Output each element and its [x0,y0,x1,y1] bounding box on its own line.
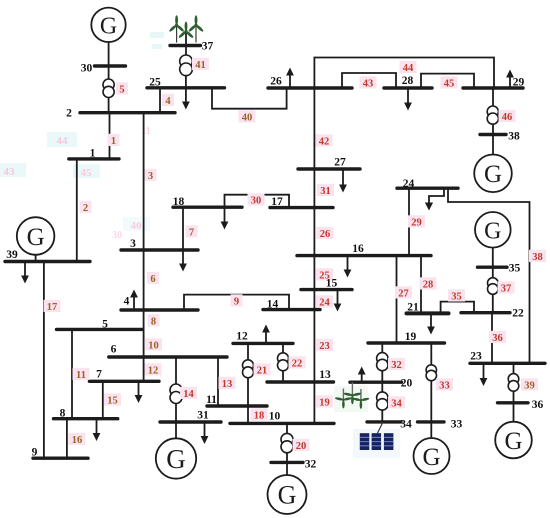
svg-text:37: 37 [202,40,214,52]
wire line 15 (bus7-bus8) [102,381,104,418]
wire transformer46 feeder (bus29-bus38) and generator38 lead [492,88,494,155]
wire generator30 lead [108,42,110,66]
svg-text:14: 14 [267,298,279,310]
wire transformer14 feeder (bus6-bus31) and generator31 lead [175,357,177,438]
svg-text:3: 3 [130,238,136,250]
label line 30 [248,193,265,206]
label line 6 [147,272,159,285]
svg-text:38: 38 [532,252,543,263]
label line 15 [104,393,121,406]
svg-text:16: 16 [72,435,83,446]
label line 35 [448,289,465,302]
label line 40 [239,110,256,123]
svg-text:36: 36 [532,399,544,411]
svg-text:G: G [504,428,522,455]
label line 8 [148,314,160,327]
svg-text:37: 37 [501,283,512,294]
wire line 7 (bus18-bus3) [182,207,184,250]
svg-text:30: 30 [251,195,262,206]
svg-text:23: 23 [319,341,330,352]
svg-text:7: 7 [189,227,194,238]
svg-text:11: 11 [141,126,150,137]
bus 19 [368,341,445,344]
generator at bus 33 [414,438,450,474]
svg-text:44: 44 [403,63,414,74]
bus 6 [109,355,227,358]
bus 33 [418,420,445,423]
label line 42 [316,134,333,147]
svg-text:17: 17 [271,196,283,208]
label line 44 [400,61,417,74]
transformer 32 [377,353,388,371]
svg-text:15: 15 [107,395,118,406]
svg-text:23: 23 [470,350,482,362]
label line 18 [251,408,268,421]
label line 33 [436,378,453,391]
label line 13 [219,377,236,390]
svg-text:46: 46 [502,112,513,123]
svg-text:13: 13 [222,379,233,390]
label line 7 [186,225,198,238]
svg-text:1: 1 [90,147,96,159]
label line 32 [388,358,405,371]
bus 26 [268,86,352,89]
wire generator39 lead [35,255,37,262]
label line 10 [145,338,162,351]
bus 29 [463,86,523,89]
wire transformer22 feeder (bus12-bus13) [282,343,284,382]
wire lines 3/6/8/10/12 (bus2-bus3-bus4-bus5-bus6-bus7) [143,113,145,382]
wire line 40 (bus25-bus26) [212,88,287,109]
bus 37 [170,44,201,47]
label line 39 [521,378,538,391]
svg-text:31: 31 [320,186,331,197]
svg-text:44: 44 [57,135,69,147]
svg-text:33: 33 [439,380,450,391]
svg-text:8: 8 [60,407,66,419]
svg-text:20: 20 [401,377,413,389]
svg-text:28: 28 [423,279,434,290]
injection arrow at bus 4 [130,290,138,311]
wire line 44 (bus26-bus29 over top) [314,58,494,89]
svg-text:2: 2 [83,203,88,214]
svg-text:17: 17 [47,302,58,313]
svg-text:43: 43 [363,78,374,89]
wire line 43 (bus26-bus28) [342,73,396,88]
generator at bus 39 [17,217,55,255]
svg-text:40: 40 [242,112,253,123]
bus 9 [33,457,88,460]
label line 9 [231,294,243,307]
svg-text:1: 1 [111,136,116,147]
load arrow at bus 23 [480,363,488,386]
svg-text:11: 11 [76,370,86,381]
injection arrow at bus 12 [262,325,270,344]
svg-text:39: 39 [6,249,18,261]
bus 35 [478,266,508,269]
solar plant at bus 34 [360,422,394,450]
transformer 5 [103,79,114,98]
svg-text:22: 22 [292,358,303,369]
wire line 36 (bus22-bus23) [491,313,493,364]
generator at bus 38 [474,155,512,193]
wind farm background tint [334,386,368,412]
wire line 13 (bus6-bus11) [217,357,219,406]
wire wind feeder (bus37-transformer41) [185,31,187,56]
bus 28 [384,86,432,89]
label line 29 [408,215,425,228]
label line 25 [316,268,333,281]
svg-text:4: 4 [165,96,171,107]
wire transformer32/34 feeder (bus19-bus20-bus34) [381,343,383,422]
wire line 45 (bus28-bus29) [421,74,474,88]
svg-text:30: 30 [81,62,93,74]
load arrow at bus 27 [339,169,347,193]
wire line 28 (bus16-bus21) [420,256,422,314]
svg-text:39: 39 [524,380,535,391]
svg-text:G: G [278,481,297,510]
wind injection arrow at bus 25 [182,76,190,110]
svg-text:4: 4 [124,295,130,307]
svg-text:32: 32 [305,458,317,470]
svg-text:29: 29 [411,217,422,228]
load arrow at bus 7 [135,381,143,403]
svg-text:G: G [27,224,45,251]
wire line 29 (bus24-bus16) [408,188,410,255]
svg-text:35: 35 [451,291,462,302]
svg-text:10: 10 [269,410,281,422]
wire line 16 (bus8-bus9) [66,419,68,459]
label line 17 [44,300,61,313]
label line 36 [489,331,506,344]
injection arrow at bus 26 [286,68,294,89]
wire line 11 (bus5-bus8) [71,329,73,418]
label line 22 [289,356,306,369]
transformer 34 [377,392,388,410]
solar plant background tint [353,429,400,458]
transformer 21 [243,360,254,378]
svg-text:24: 24 [403,178,415,190]
bus 17 [270,206,333,209]
svg-text:34: 34 [400,418,412,430]
svg-text:10: 10 [148,340,159,351]
wind farm at bus 37 (3 turbines) [168,15,204,42]
label line 38 [529,250,546,263]
svg-text:18: 18 [254,410,265,421]
wire transformer5 feeder (bus30-bus2) [108,66,110,113]
bus 38 [480,133,506,136]
generator at bus 36 [495,422,532,459]
svg-text:15: 15 [326,277,338,289]
bus 16 [297,254,431,257]
load arrow at bus 3 [179,250,187,272]
svg-text:9: 9 [32,446,38,458]
wire generator35 lead / transformer37 feeder (bus35-bus22) [492,247,494,312]
wire line 1 (bus2-bus1) [109,113,111,159]
svg-text:G: G [100,13,117,39]
bus 12 [233,342,293,345]
svg-text:12: 12 [236,330,248,342]
ghost artifact labels [0,32,164,241]
svg-text:41: 41 [195,60,206,71]
bus 31 [160,420,221,423]
wire lines 42/31/26/25/24/23/19 (bus26..bus10 vertical) [313,88,315,423]
bus 10 [230,422,334,425]
svg-text:G: G [422,444,440,471]
svg-text:24: 24 [319,297,330,308]
label line 14 [180,387,197,400]
svg-text:5: 5 [102,318,108,330]
bus 24 [397,186,458,189]
wire transformer33 feeder (bus19-bus33) and generator33 lead [430,343,432,438]
svg-text:19: 19 [319,397,330,408]
bus 30 [95,64,126,67]
bus 32 [271,461,303,464]
label line 11 [73,368,90,381]
wire transformer20 feeder (bus10-bus32) and generator32 lead [286,423,288,475]
svg-text:45: 45 [81,167,93,179]
wind farm at bus 20 (3 turbines) [335,382,370,409]
label line 2 [80,201,92,214]
label line 4 [162,94,174,107]
svg-text:G: G [166,444,186,474]
svg-text:16: 16 [352,243,364,255]
transformer 41 [180,55,193,76]
bus 25 [147,86,225,89]
svg-text:42: 42 [319,136,330,147]
transformer 22 [278,353,289,371]
svg-text:18: 18 [173,196,185,208]
svg-text:21: 21 [407,301,419,313]
load arrow at bus 18 [221,207,229,229]
transformer 46 [487,106,498,124]
label line 24 [316,295,333,308]
svg-text:31: 31 [197,409,209,421]
bus 39 [5,260,90,263]
load arrow at bus 21 [427,313,435,334]
bus 20 [350,381,402,384]
svg-text:13: 13 [319,369,331,381]
wire line 35 (bus21-bus22) [441,302,474,314]
svg-text:28: 28 [402,75,414,87]
load arrow at bus 31 [201,422,209,444]
bus 18 [173,205,242,208]
load arrow at bus 28 [404,88,412,111]
svg-text:7: 7 [96,368,102,380]
wire line 38 (bus24-bus23 right side) [448,188,530,363]
bus 36 [498,401,529,404]
bus 13 [267,380,334,383]
load arrow at bus 16 [344,256,352,278]
label line 23 [316,339,333,352]
svg-text:38: 38 [508,130,520,142]
label line 37 [498,281,515,294]
bus 5 [57,328,143,331]
bus 21 [407,311,449,315]
generator at bus 32 [268,475,307,514]
svg-text:11: 11 [206,394,217,406]
load arrow at bus 8 [93,419,101,441]
bus 27 [298,167,360,170]
svg-text:25: 25 [149,76,161,88]
load arrow at bus 24 (stepped) [425,188,444,210]
label line 12 [145,363,162,376]
label line 20 [293,439,310,452]
label line 3 [145,169,157,182]
svg-text:34: 34 [391,398,402,409]
injection arrow at bus 29 [506,70,514,89]
wire line 18 + transformer21 feeder (bus12-bus11-bus10) [247,343,249,423]
svg-text:21: 21 [257,365,268,376]
transformer 33 [426,365,436,381]
label line 19 [316,395,333,408]
svg-text:20: 20 [296,441,307,452]
label line 41 [192,58,209,71]
wire line 27 (bus16-bus19) [396,256,398,343]
bus 1 [69,157,119,160]
bus 8 [54,417,118,420]
transformer 39 [508,374,519,392]
generator at bus 31 [156,438,196,478]
svg-text:9: 9 [234,296,239,307]
svg-text:27: 27 [398,288,409,299]
label line 34 [388,396,405,409]
svg-text:26: 26 [320,229,331,240]
load arrow at bus 15 [334,290,342,312]
svg-text:G: G [484,161,502,188]
svg-text:8: 8 [151,316,156,327]
label line 28 [420,277,437,290]
wire line 9 (bus4-bus14) [184,295,289,310]
label line 46 [499,110,516,123]
label line 45 [441,76,458,89]
svg-text:G: G [484,218,501,244]
label line 31 [317,184,334,197]
svg-text:6: 6 [150,274,155,285]
generator at bus 30 [91,8,125,42]
svg-text:3: 3 [148,171,153,182]
label line 1 [108,134,120,147]
bus 14 [263,308,320,311]
svg-text:19: 19 [405,331,417,343]
injection arrow at bus 20 [358,367,366,383]
transformer 20 [281,433,293,452]
svg-text:12: 12 [148,365,159,376]
svg-text:30: 30 [112,230,122,241]
svg-text:5: 5 [119,84,124,95]
svg-text:2: 2 [66,107,72,119]
wire line 17 (bus39-bus9) [43,262,45,459]
wire line 30 (bus18-bus17) [225,195,290,208]
svg-text:26: 26 [270,75,282,87]
svg-text:33: 33 [451,418,463,430]
bus 7 [89,380,159,383]
label line 21 [254,363,271,376]
wire line 4 (bus25-bus2) [159,88,161,113]
svg-text:36: 36 [492,333,503,344]
label line 27 [395,286,412,299]
load arrow at bus 39 [21,262,29,284]
svg-text:45: 45 [444,78,455,89]
transformer 14 [170,384,182,404]
svg-text:27: 27 [334,156,346,168]
bus 34 [367,420,401,423]
bus 11 [207,404,267,407]
svg-text:6: 6 [111,343,117,355]
svg-text:22: 22 [512,307,524,319]
bus 2 [80,111,175,114]
wire transformer39 feeder (bus23-bus36) and generator36 lead [513,363,515,422]
bus 22 [461,311,510,314]
svg-text:14: 14 [183,389,194,400]
label line 43 [360,76,377,89]
bus 23 [470,362,545,365]
label line 26 [317,227,334,240]
svg-text:32: 32 [391,360,402,371]
svg-text:35: 35 [509,262,521,274]
bus 15 [301,288,352,291]
generator at bus 35 [475,212,511,248]
svg-text:29: 29 [513,76,525,88]
transformer 37 [488,278,499,295]
bus 4 [121,308,198,311]
label line 16 [69,433,86,446]
svg-text:43: 43 [4,166,16,178]
bus 3 [121,248,198,251]
wire line 2 (bus1-bus39) [76,159,78,262]
label line 5 [116,82,128,95]
svg-text:40: 40 [131,220,143,232]
